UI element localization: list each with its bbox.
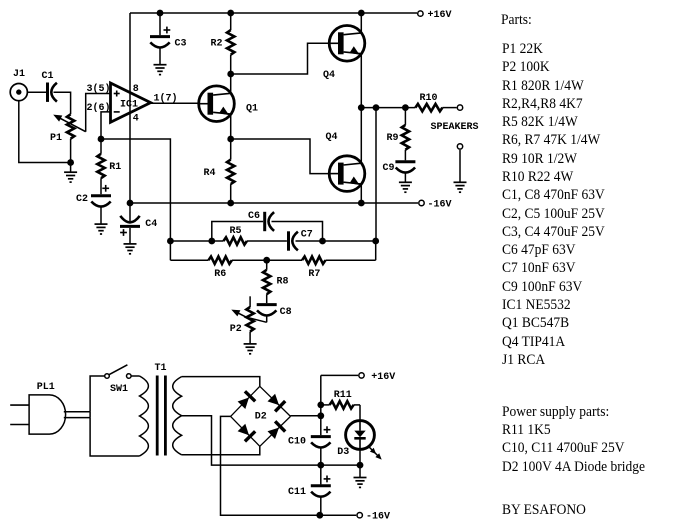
node C3 top junction [157, 10, 164, 17]
node D3 cathode on ground rail [357, 462, 364, 469]
ground (C2) [95, 223, 108, 225]
wire R4 to -16V rail [230, 184, 232, 203]
svg-text:4: 4 [133, 114, 139, 125]
wire R6 to R7 [232, 259, 302, 261]
wire secondary top to bridge [182, 377, 260, 387]
svg-text:D3: D3 [337, 447, 349, 458]
svg-text:+16V: +16V [428, 10, 452, 21]
svg-text:Q4: Q4 [326, 132, 338, 143]
transformer T1 secondary winding [173, 377, 182, 455]
node R4 bottom on rail [227, 200, 234, 207]
svg-text:+16V: +16V [371, 372, 395, 383]
wire J1 to C1 [27, 91, 46, 93]
capacitor C1 [46, 83, 49, 102]
node R2 top junction [227, 10, 234, 17]
svg-text:SW1: SW1 [110, 384, 128, 395]
node row C center [263, 257, 270, 264]
svg-text:R4: R4 [204, 168, 216, 179]
terminal speakers - [457, 144, 462, 149]
transistor Q1 [199, 86, 235, 122]
parts list heading [501, 11, 532, 29]
wire +16 vertical through R11 node to C10 [320, 375, 322, 435]
wire R7 to right [326, 259, 376, 261]
node P1 bottom junction [67, 159, 74, 166]
svg-text:R10: R10 [420, 93, 438, 104]
wire R1 to C2 [100, 178, 102, 194]
node C6 branch right [319, 238, 326, 245]
wire output to feedback right node [375, 108, 377, 241]
terminal speakers + [457, 105, 462, 110]
wire feedback row A left segment [170, 240, 223, 242]
resistor R2 [227, 30, 234, 55]
resistor R8 [263, 270, 270, 294]
potentiometer P2 [231, 296, 254, 331]
wire R2 bottom to Q1 collector [230, 55, 232, 94]
wire Q4 lower collector to output node [360, 108, 362, 164]
svg-text:PL1: PL1 [37, 382, 55, 393]
svg-text:C4: C4 [145, 219, 157, 230]
svg-text:T1: T1 [155, 363, 167, 374]
wire R8 stem [266, 260, 268, 270]
capacitor C11 [311, 476, 331, 516]
capacitor C2 [91, 185, 111, 224]
capacitor C4 flipped electrolytic [120, 203, 140, 244]
svg-text:R2: R2 [211, 38, 223, 49]
rca jack J1 [10, 84, 27, 101]
svg-text:R8: R8 [277, 277, 289, 288]
svg-text:R5: R5 [230, 226, 242, 237]
led D3 [346, 421, 382, 460]
resistor R1 [97, 154, 104, 178]
transistor Q1 wiring [230, 114, 232, 139]
wire Q4 upper collector to +16 rail [360, 13, 362, 33]
svg-text:C8: C8 [280, 307, 292, 318]
wire R2 stem [230, 13, 232, 30]
wire C6 branch up and right [212, 222, 263, 242]
transformer T1 primary winding [140, 376, 149, 456]
svg-text:IC1: IC1 [120, 100, 138, 111]
terminal +16V (psu) [359, 373, 364, 378]
transistor Q4 lower [329, 156, 365, 192]
svg-text:8: 8 [133, 84, 139, 95]
node C6 branch left [208, 238, 215, 245]
svg-text:R6: R6 [214, 269, 226, 280]
svg-text:R7: R7 [308, 269, 320, 280]
wire P2 to ground [249, 332, 251, 344]
svg-text:C7: C7 [301, 230, 313, 241]
svg-text:C3: C3 [175, 38, 187, 49]
resistor R11 [321, 401, 360, 408]
node rail left (C4) [127, 200, 134, 207]
resistor R9 [402, 125, 409, 150]
wire feedback to network left node [101, 139, 170, 260]
wire J1 ground run [19, 101, 71, 163]
svg-text:P2: P2 [230, 324, 242, 335]
node C11 bottom on rail [316, 512, 323, 519]
wire feedback right vertical [375, 241, 377, 260]
wire bridge minus to bottom rail [221, 416, 357, 515]
wire C7 to right node [296, 240, 376, 242]
wire R10 to terminal [442, 107, 456, 109]
wire R9 stem [404, 108, 406, 125]
wire R11 to D3 [359, 405, 361, 421]
terminal -16V (amp) [419, 200, 424, 205]
svg-text:R1: R1 [109, 162, 121, 173]
transformer T1 core [156, 376, 167, 456]
wire output node [361, 107, 415, 109]
wire R4 stem [230, 139, 232, 160]
wire Q4 upper emitter to output node [360, 54, 362, 108]
wire C1 to P1 top [54, 92, 71, 114]
ground (C9) [399, 181, 412, 183]
capacitor C7 [287, 231, 290, 250]
svg-text:-16V: -16V [428, 200, 452, 211]
parts list main [502, 40, 605, 369]
wire +16V top rail [130, 12, 417, 14]
ground (psu) [354, 477, 367, 479]
resistor R5 [224, 237, 247, 244]
svg-text:-16V: -16V [366, 512, 390, 523]
node feedback left [167, 238, 174, 245]
svg-text:Q4: Q4 [323, 70, 335, 81]
wire R8 to C8 [266, 294, 268, 303]
wire IC1 output [151, 102, 199, 104]
wire secondary bottom to bridge [182, 446, 260, 455]
wire D3 to ground rail [359, 449, 361, 465]
wire to ground [70, 163, 72, 173]
wire inverting input [101, 112, 111, 139]
wire R5 to C7 [247, 240, 287, 242]
wire -16V amp rail [130, 202, 418, 204]
node feedback right [372, 238, 379, 245]
wire bridge plus to C10 node [291, 415, 321, 417]
wire P1 bottom [70, 139, 72, 163]
svg-text:C10: C10 [288, 437, 306, 448]
switch SW1 [105, 365, 131, 379]
op-amp minus input sign [114, 111, 120, 113]
wire emitter junction to Q4 lower base [231, 139, 330, 174]
svg-text:J1: J1 [13, 69, 25, 80]
node Q1 collector / Q4 base junction [227, 71, 234, 78]
transistor Q4 upper [329, 26, 365, 62]
author credit [502, 501, 586, 519]
terminal -16V (psu) [357, 513, 362, 518]
resistor R6 [209, 257, 232, 264]
svg-text:D2: D2 [255, 412, 267, 423]
terminal +16V (amp) [418, 11, 423, 16]
capacitor C6 [263, 212, 266, 231]
svg-text:C9: C9 [383, 163, 395, 174]
svg-text:C11: C11 [288, 487, 306, 498]
wire R1 stem [100, 139, 102, 154]
resistor R7 [302, 257, 325, 264]
node output R9 tap [402, 104, 409, 111]
plug PL1 [10, 395, 90, 434]
diode bridge D2 [231, 386, 291, 446]
svg-text:C2: C2 [76, 194, 88, 205]
wire speaker return to ground [459, 150, 461, 182]
ground (C4) [124, 243, 137, 245]
wire IC1 supply vertical (pin8 to pin4) [129, 13, 131, 203]
node bridge plus junction [317, 412, 324, 419]
node Q4 upper collector on rail [358, 10, 365, 17]
wire primary bottom return [90, 418, 139, 456]
wire D3 ground stem [359, 465, 361, 477]
svg-text:Q1: Q1 [246, 104, 258, 115]
resistor R4 [227, 160, 234, 185]
op-amp U1 IC1 triangle [111, 83, 151, 122]
wire ground rail right [320, 464, 360, 466]
svg-text:C6: C6 [248, 211, 260, 222]
wire switch to transformer [131, 375, 139, 377]
wire row C left segment [170, 259, 208, 261]
svg-text:R9: R9 [387, 133, 399, 144]
node output at Q4 [358, 104, 365, 111]
wire noninverting input [86, 94, 111, 132]
resistor R10 [415, 104, 442, 111]
svg-text:C1: C1 [42, 71, 54, 82]
wire plug to switch [89, 412, 91, 418]
op-amp plus input sign [114, 91, 120, 97]
parts list power supply [502, 403, 645, 476]
wire Q4 lower emitter to -16 rail [360, 184, 362, 203]
wire +16 to terminal [321, 374, 358, 376]
wire junction to Q4 upper base [231, 43, 330, 74]
capacitor C9 [395, 162, 415, 183]
node inverting input junction [98, 136, 105, 143]
ground (speaker) [454, 181, 467, 183]
wire secondary center tap to ground rail [182, 416, 320, 465]
node Q1 emitter junction [227, 136, 234, 143]
wire C11 stem [320, 465, 322, 484]
ground (input) [64, 171, 77, 173]
svg-text:P1: P1 [50, 133, 62, 144]
ground (P2) [244, 343, 257, 345]
node ground rail at C10 [317, 462, 324, 469]
capacitor C10 [311, 426, 331, 465]
capacitor C8 [250, 305, 277, 323]
node R11 junction [317, 402, 324, 409]
wire C3 stem [159, 13, 161, 35]
ground (C3) [154, 64, 167, 66]
wire C6 to drop [272, 222, 323, 242]
node Q4 lower emitter on rail [358, 200, 365, 207]
potentiometer P1 [53, 114, 85, 138]
svg-text:SPEAKERS: SPEAKERS [431, 122, 479, 133]
wire R9 to C9 [404, 150, 406, 161]
node output feedback tap [373, 104, 380, 111]
svg-text:R11: R11 [334, 390, 352, 401]
capacitor C3 [150, 27, 170, 65]
